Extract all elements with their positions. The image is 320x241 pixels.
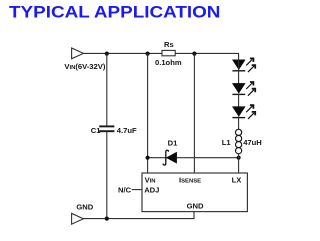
wire top rail left (VIN to resistor) bbox=[83, 52, 162, 54]
svg-text:ADJ: ADJ bbox=[144, 186, 159, 195]
wire top rail right (resistor to LED string) bbox=[175, 52, 239, 54]
wire diode rail bbox=[148, 157, 239, 159]
LED D-C (bottom) bbox=[232, 105, 255, 119]
svg-text:4.7uF: 4.7uF bbox=[117, 126, 137, 135]
svg-text:GND: GND bbox=[187, 202, 204, 211]
svg-text:C1: C1 bbox=[91, 126, 101, 135]
svg-text:GND: GND bbox=[76, 203, 93, 212]
svg-text:N/C: N/C bbox=[118, 186, 132, 195]
wire ISENSE pin branch bbox=[193, 53, 195, 173]
svg-text:LX: LX bbox=[232, 176, 242, 185]
input port triangle VIN bbox=[72, 48, 84, 59]
wire LED2-LED3 bbox=[238, 94, 240, 108]
node dot diode-VIN junction bbox=[146, 156, 150, 160]
svg-text:VIN(6V-32V): VIN(6V-32V) bbox=[64, 62, 105, 71]
wire LED3 to inductor bbox=[238, 117, 240, 130]
capacitor C1 bbox=[99, 126, 114, 131]
wire ground rail bbox=[83, 218, 194, 220]
wire C1 branch lower bbox=[106, 131, 108, 218]
diode D1 (schottky) bbox=[163, 150, 177, 165]
node dot VIN branch bbox=[146, 52, 150, 56]
svg-text:L1: L1 bbox=[222, 138, 232, 147]
svg-text:TYPICAL APPLICATION: TYPICAL APPLICATION bbox=[9, 3, 220, 21]
resistor Rs bbox=[162, 50, 175, 55]
node dot ground-C1 junction bbox=[105, 217, 109, 221]
wire N/C to ADJ pin bbox=[132, 189, 142, 191]
LED D-B (middle) bbox=[232, 82, 255, 96]
svg-text:Rs: Rs bbox=[164, 40, 174, 49]
inductor L1 bbox=[236, 129, 242, 154]
node dot ISENSE branch bbox=[192, 52, 196, 56]
wire GND pin bbox=[193, 212, 195, 220]
wire VIN pin branch bbox=[147, 53, 149, 173]
svg-text:0.1ohm: 0.1ohm bbox=[155, 58, 182, 67]
node dot LX junction bbox=[237, 156, 241, 160]
wire inductor to LX pin bbox=[238, 154, 240, 173]
ground port triangle GND bbox=[72, 213, 84, 224]
wire LED1-LED2 bbox=[238, 53, 240, 84]
IC box U1 bbox=[142, 173, 247, 212]
node dot C1 branch bbox=[105, 52, 109, 56]
wire C1 branch upper bbox=[106, 53, 108, 126]
LED D-A (top) bbox=[232, 58, 255, 72]
svg-text:D1: D1 bbox=[168, 139, 178, 148]
svg-text:47uH: 47uH bbox=[243, 138, 262, 147]
